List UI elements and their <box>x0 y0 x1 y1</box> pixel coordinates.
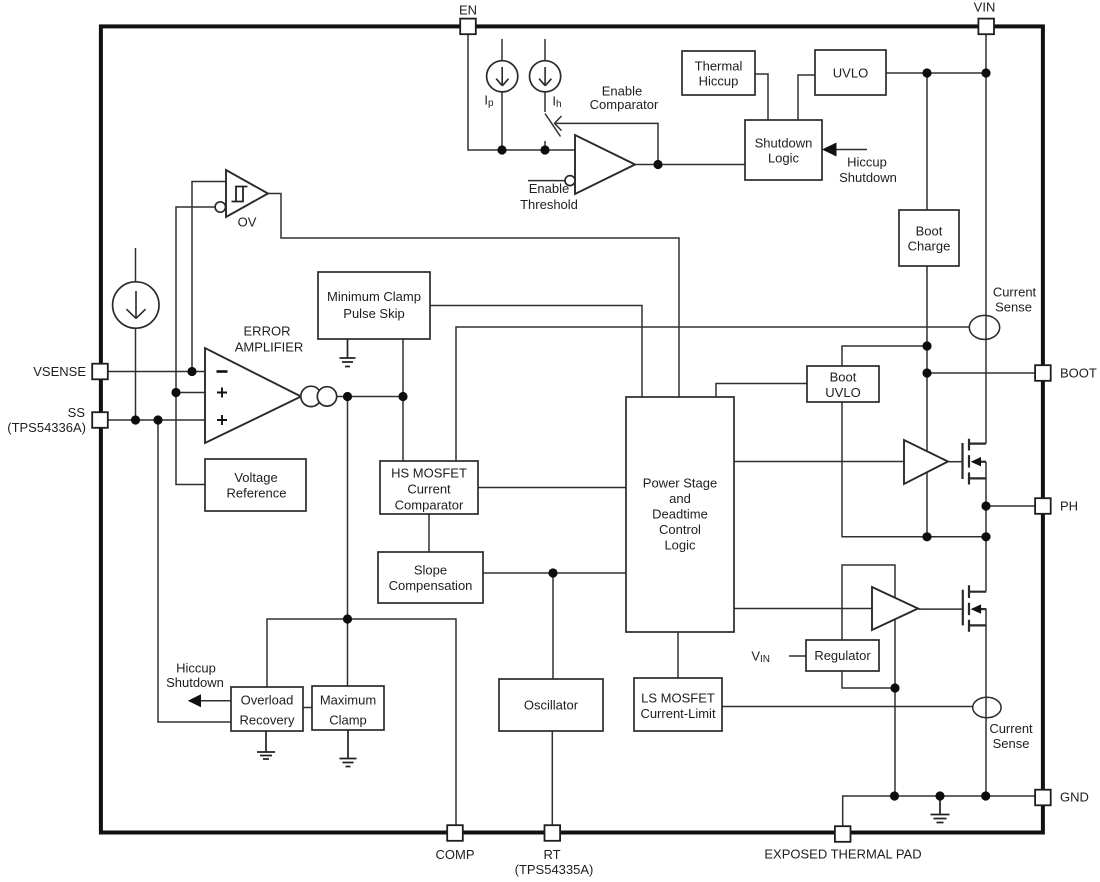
svg-text:Clamp: Clamp <box>329 713 367 728</box>
svg-text:SS: SS <box>68 405 86 420</box>
svg-text:Sense: Sense <box>993 736 1030 751</box>
svg-text:Shutdown: Shutdown <box>839 170 897 185</box>
svg-text:HS MOSFET: HS MOSFET <box>391 466 467 481</box>
svg-text:OV: OV <box>238 215 257 230</box>
svg-text:Overload: Overload <box>241 693 294 708</box>
svg-text:RT: RT <box>543 847 560 862</box>
svg-text:Current: Current <box>407 482 451 497</box>
svg-text:Current: Current <box>989 721 1033 736</box>
svg-text:Logic: Logic <box>768 151 800 166</box>
svg-text:Voltage: Voltage <box>234 470 277 485</box>
svg-text:Threshold: Threshold <box>520 197 578 212</box>
svg-text:Power Stage: Power Stage <box>643 476 717 491</box>
svg-text:and: and <box>669 491 691 506</box>
svg-text:COMP: COMP <box>436 847 475 862</box>
svg-text:VIN: VIN <box>974 0 996 15</box>
svg-text:Boot: Boot <box>830 370 857 385</box>
svg-text:Comparator: Comparator <box>395 498 464 513</box>
svg-text:Shutdown: Shutdown <box>166 675 224 690</box>
svg-text:Minimum Clamp: Minimum Clamp <box>327 289 421 304</box>
svg-text:ERROR: ERROR <box>244 324 291 339</box>
svg-text:UVLO: UVLO <box>833 66 868 81</box>
svg-text:Boot: Boot <box>916 224 943 239</box>
svg-text:AMPLIFIER: AMPLIFIER <box>235 340 304 355</box>
svg-text:EXPOSED THERMAL PAD: EXPOSED THERMAL PAD <box>764 847 921 862</box>
svg-text:Maximum: Maximum <box>320 693 376 708</box>
svg-text:Current-Limit: Current-Limit <box>640 706 716 721</box>
svg-text:Deadtime: Deadtime <box>652 507 708 522</box>
svg-text:Current: Current <box>993 285 1037 300</box>
svg-text:Hiccup: Hiccup <box>176 661 216 676</box>
svg-text:BOOT: BOOT <box>1060 366 1097 381</box>
svg-text:Sense: Sense <box>995 300 1032 315</box>
svg-text:(TPS54335A): (TPS54335A) <box>515 862 594 877</box>
svg-text:Enable: Enable <box>529 181 569 196</box>
svg-text:Shutdown: Shutdown <box>755 136 813 151</box>
svg-text:Hiccup: Hiccup <box>847 155 887 170</box>
svg-text:Oscillator: Oscillator <box>524 698 579 713</box>
svg-text:VSENSE: VSENSE <box>33 364 86 379</box>
svg-text:Hiccup: Hiccup <box>699 74 739 89</box>
svg-text:Slope: Slope <box>414 563 447 578</box>
svg-text:Reference: Reference <box>227 486 287 501</box>
svg-text:Charge: Charge <box>908 239 951 254</box>
svg-text:GND: GND <box>1060 790 1089 805</box>
svg-text:PH: PH <box>1060 499 1078 514</box>
svg-text:(TPS54336A): (TPS54336A) <box>7 420 86 435</box>
svg-text:LS MOSFET: LS MOSFET <box>641 691 715 706</box>
svg-text:Logic: Logic <box>664 538 696 553</box>
svg-text:EN: EN <box>459 3 477 18</box>
svg-text:Thermal: Thermal <box>695 59 743 74</box>
svg-text:Pulse Skip: Pulse Skip <box>343 306 404 321</box>
svg-text:Regulator: Regulator <box>814 648 871 663</box>
svg-text:Compensation: Compensation <box>389 578 473 593</box>
svg-text:Control: Control <box>659 522 701 537</box>
svg-text:Comparator: Comparator <box>590 97 659 112</box>
svg-text:UVLO: UVLO <box>825 385 860 400</box>
svg-text:Recovery: Recovery <box>240 713 295 728</box>
